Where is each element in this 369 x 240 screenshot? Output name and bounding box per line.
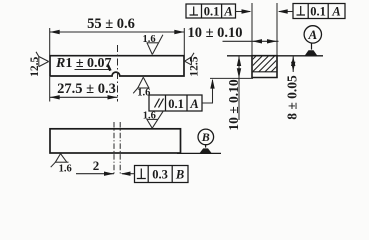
section right face extension up	[276, 3, 278, 55]
svg-text:12.5: 12.5	[29, 56, 41, 76]
section left face extension up	[251, 3, 253, 55]
parallelism frame // 0.1 A	[149, 95, 202, 111]
svg-text:0.1: 0.1	[168, 97, 184, 111]
bottom face extension line (datum B line)	[177, 152, 221, 154]
notch plane lines (dash-dot)	[113, 122, 115, 175]
svg-text:A: A	[307, 27, 317, 42]
roughness 12.5 right end face	[185, 53, 194, 65]
svg-text:B: B	[201, 130, 210, 144]
roughness 1.6 on bottom view bottom face	[51, 154, 69, 168]
parallelism leader to bottom face ext	[202, 80, 213, 103]
dimension 10 ± 0.10 (width) line	[223, 40, 279, 42]
roughness 1.6 on bottom view top face	[146, 111, 163, 128]
svg-text:1.6: 1.6	[143, 111, 156, 122]
svg-text:1.6: 1.6	[59, 164, 72, 175]
leader dot at notch	[106, 64, 111, 71]
roughness 1.6 on bottom face of top view	[133, 77, 149, 93]
leader from left perp frame to section left face	[236, 11, 251, 13]
svg-text:12.5: 12.5	[189, 56, 201, 76]
perpendicularity frame (left) ⊥ 0.1 A	[186, 4, 236, 18]
datum A symbol	[305, 50, 318, 56]
svg-text:B: B	[175, 168, 184, 182]
specimen body (top view outline with U-notch)	[50, 56, 184, 76]
leader from ⊥ 0.3 B frame to notch plane line	[122, 173, 135, 175]
svg-text:0.1: 0.1	[204, 4, 220, 18]
perpendicularity frame (right) ⊥ 0.1 A	[293, 4, 345, 19]
svg-text:10 ± 0.10: 10 ± 0.10	[187, 25, 242, 41]
svg-text:A: A	[189, 97, 198, 111]
datum B symbol	[199, 148, 212, 153]
specimen body (bottom view outline)	[50, 129, 181, 153]
svg-text:0.1: 0.1	[310, 4, 326, 18]
svg-text:1.6: 1.6	[142, 34, 155, 45]
perpendicularity frame ⊥ 0.3 B	[135, 166, 189, 183]
notch bottom line in section	[253, 71, 277, 73]
dimension 55 ± 0.6 line	[50, 31, 185, 33]
svg-text:A: A	[331, 4, 340, 18]
svg-text:A: A	[223, 4, 232, 18]
extension line left lower (27.5 dim)	[49, 77, 51, 102]
svg-text:55 ± 0.6: 55 ± 0.6	[87, 16, 135, 32]
leader from right perp frame to section right face	[279, 11, 293, 13]
svg-text:8 ± 0.05: 8 ± 0.05	[285, 75, 300, 120]
roughness 12.5 left end face	[36, 52, 49, 67]
leader underline of R1 label	[75, 69, 109, 71]
dimension 2 (notch width)	[76, 173, 114, 175]
dimension 27.5 ± 0.3 line	[50, 96, 118, 98]
dimension 10 ± 0.10 (height) line	[238, 56, 240, 120]
notch centerline	[117, 45, 119, 102]
svg-text:0.3: 0.3	[152, 168, 168, 182]
svg-text:27.5 ± 0.3: 27.5 ± 0.3	[57, 81, 116, 97]
extension line left (55 dim)	[49, 28, 51, 55]
svg-text:2: 2	[93, 158, 100, 173]
section bottom face extension line	[210, 77, 253, 79]
dimension 8 ± 0.05 line	[292, 56, 294, 72]
svg-text:R1 ± 0.07: R1 ± 0.07	[55, 56, 112, 71]
cross-section outline	[252, 56, 277, 78]
section top face extension line (datum line)	[227, 55, 323, 57]
extension line right (55 dim)	[183, 28, 185, 55]
section hatching	[240, 55, 294, 72]
svg-text:10 ± 0.10: 10 ± 0.10	[226, 79, 241, 131]
roughness 1.6 on top face	[147, 35, 163, 55]
